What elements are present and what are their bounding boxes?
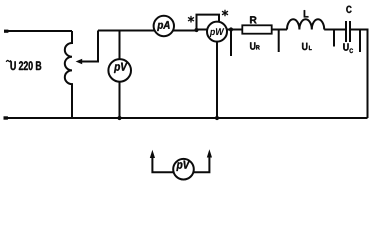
tap arrow wire xyxy=(81,31,98,62)
wire bottom rail xyxy=(4,117,368,119)
label pV2 xyxy=(176,161,190,171)
ammeter pA xyxy=(154,16,174,36)
voltmeter pV1 circle xyxy=(108,59,131,82)
label UL xyxy=(302,43,307,50)
portable voltmeter pV2 leads xyxy=(152,156,209,172)
node after pA xyxy=(194,28,198,32)
wattmeter pW xyxy=(207,22,227,42)
label UL sub xyxy=(309,46,312,50)
voltmeter pV2 circle xyxy=(173,159,194,180)
wire C to right corner xyxy=(351,30,368,119)
asterisk left of wattmeter xyxy=(188,16,194,23)
label pV1 xyxy=(114,63,128,73)
arrowhead right probe xyxy=(207,149,212,157)
label UC xyxy=(343,43,348,50)
label UR xyxy=(250,42,255,49)
node pW bottom xyxy=(215,116,219,120)
arrowhead left probe xyxy=(150,150,155,158)
label C xyxy=(346,6,351,13)
node terminal a xyxy=(229,27,233,31)
label UR sub xyxy=(256,45,259,49)
label source voltage xyxy=(11,61,42,70)
terminal stub a xyxy=(230,30,232,57)
label L xyxy=(304,10,309,17)
capacitor C plates xyxy=(346,21,350,42)
wattmeter current-coil bracket xyxy=(197,15,220,30)
terminal bottom-left xyxy=(4,116,8,119)
resistor R xyxy=(242,25,271,33)
tap arrowhead xyxy=(76,59,83,64)
inductor L xyxy=(287,19,324,29)
wire top rail right xyxy=(197,29,288,31)
wire source top xyxy=(4,30,72,32)
label R xyxy=(250,16,257,23)
label UC sub xyxy=(350,49,354,54)
label pW xyxy=(210,28,225,37)
wire pV1 branch xyxy=(119,31,121,119)
terminal top-left xyxy=(4,30,8,33)
autotransformer T1 winding xyxy=(65,31,72,118)
label pA xyxy=(157,21,169,31)
wire top rail left xyxy=(98,30,197,32)
node bottom pV1 xyxy=(117,116,121,120)
asterisk right of bracket xyxy=(222,10,228,17)
terminal stub c xyxy=(333,30,335,47)
wire L to C xyxy=(324,29,345,31)
label tilde xyxy=(6,60,11,62)
wire pW to bottom xyxy=(216,42,218,118)
terminal stub b xyxy=(278,30,280,53)
terminal stub d xyxy=(359,30,361,53)
